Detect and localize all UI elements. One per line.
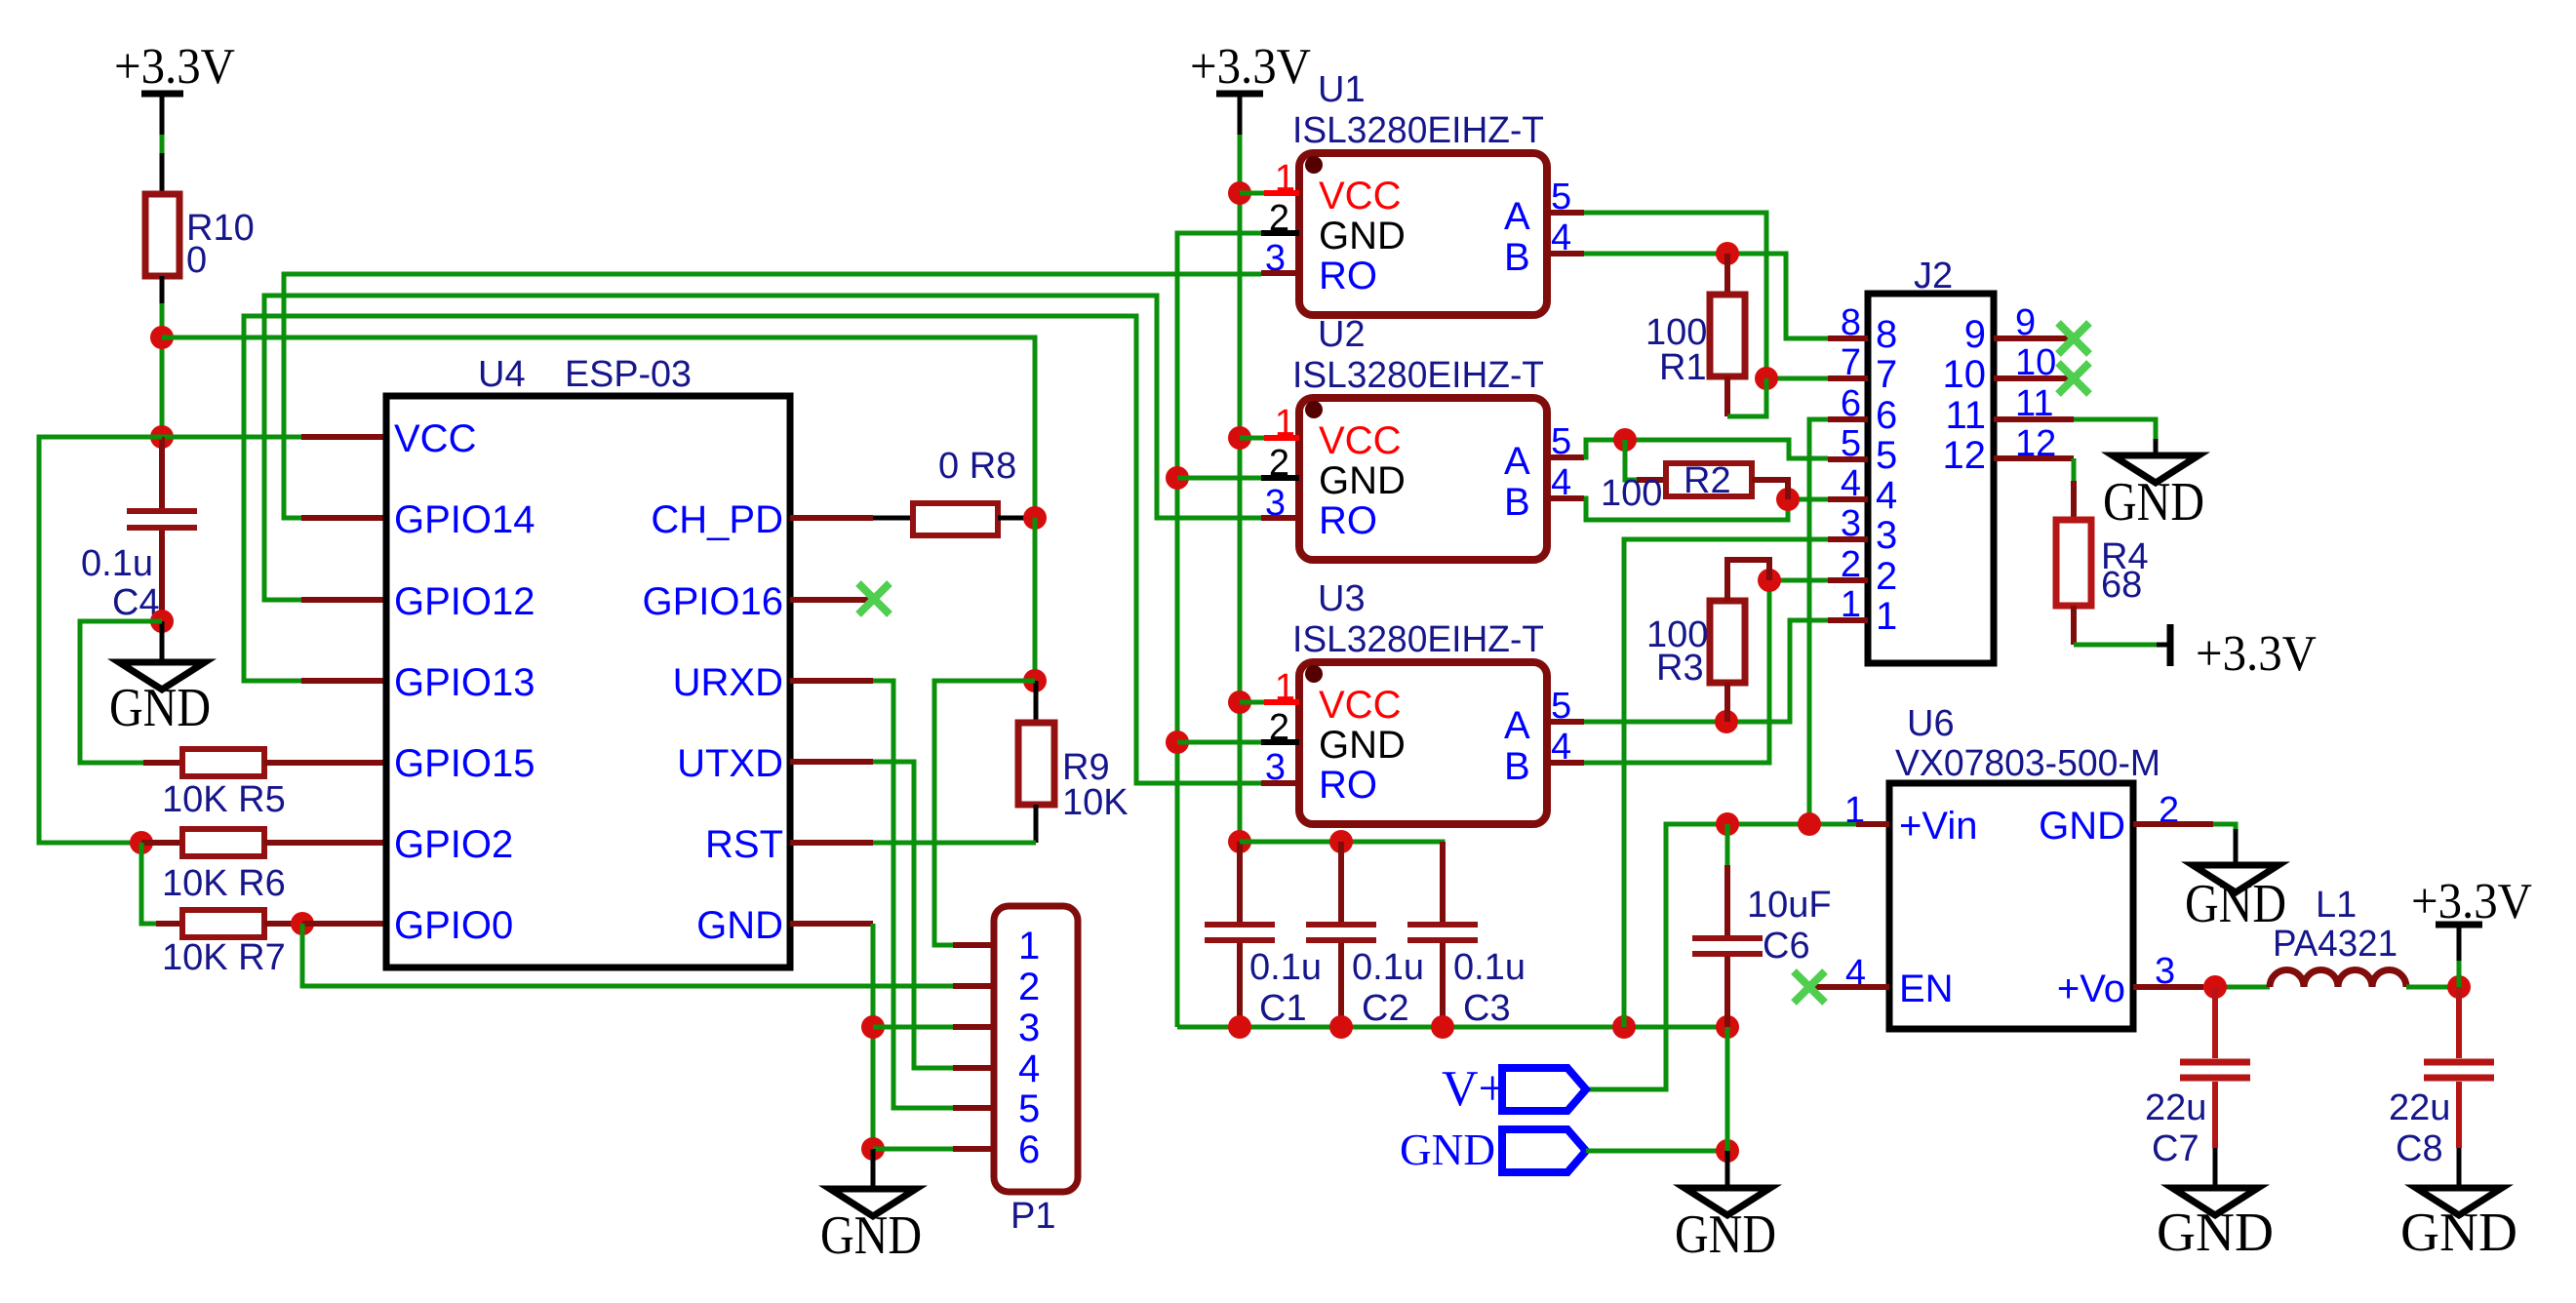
pin U1 A stub	[1547, 210, 1584, 216]
pin J2-2 stub	[1828, 577, 1868, 583]
pin U3 GND stub	[1261, 739, 1299, 745]
pin U3 B stub	[1547, 760, 1584, 766]
resistor R3	[1646, 560, 1769, 722]
svg-text:6: 6	[1876, 394, 1897, 437]
wire J2 pin3 to GND rail	[1624, 539, 1828, 1027]
svg-text:RO: RO	[1319, 499, 1377, 542]
svg-text:+3.3V: +3.3V	[114, 39, 235, 95]
node J2 pin6 riser junction	[1798, 812, 1821, 836]
svg-text:0.1u: 0.1u	[1249, 947, 1322, 988]
svg-text:C7: C7	[2152, 1128, 2200, 1169]
wire U1 B to J2 pin8	[1584, 254, 1828, 338]
svg-text:2: 2	[1876, 555, 1897, 598]
pin U4 UTXD stub	[790, 759, 873, 765]
svg-text:GND: GND	[1319, 215, 1406, 257]
svg-text:10K: 10K	[1062, 782, 1129, 823]
flag GND	[1400, 1125, 1586, 1174]
svg-text:+Vin: +Vin	[1899, 805, 1977, 848]
capacitor C1	[1205, 842, 1322, 1029]
wire GPIO12 to U2 RO (net bus line B)	[264, 296, 1261, 600]
wire GND to U3 pin2	[1177, 740, 1261, 745]
node U4 VCC junction	[150, 425, 174, 449]
pin J2-3 stub	[1828, 536, 1868, 542]
pin J2-8 stub	[1828, 336, 1868, 341]
resistor R6	[141, 829, 301, 904]
svg-text:GPIO16: GPIO16	[642, 580, 783, 623]
svg-text:4: 4	[1876, 474, 1897, 517]
svg-text:V+: V+	[1442, 1061, 1507, 1117]
wire VCC chain down to C1	[1238, 135, 1243, 842]
node C2 top junction	[1329, 830, 1353, 853]
svg-text:B: B	[1504, 236, 1530, 279]
ground (J2 pin11)	[2103, 439, 2204, 533]
pin U1 VCC stub	[1240, 191, 1299, 196]
svg-text:J2: J2	[1914, 256, 1953, 296]
node A1/R1 junction	[1755, 367, 1778, 390]
svg-text:3: 3	[1876, 514, 1897, 557]
pin U2 A stub	[1547, 454, 1584, 460]
wire caps top rail	[1240, 842, 1443, 914]
ic U3 ISL3280EIHZ-T	[1265, 578, 1571, 824]
svg-text:GPIO15: GPIO15	[394, 742, 535, 785]
pin U6 GND stub	[2133, 821, 2213, 827]
pin P1-4 stub	[953, 1065, 994, 1071]
node GPIO0 junction	[291, 912, 314, 935]
svg-text:1: 1	[1018, 925, 1040, 967]
svg-text:U2: U2	[1318, 314, 1366, 355]
ic U2 ISL3280EIHZ-T	[1265, 314, 1571, 560]
node P1 pin3 junction	[861, 1015, 885, 1039]
svg-text:4: 4	[1018, 1047, 1040, 1090]
wire J2 pin11 to GND	[2074, 419, 2156, 439]
node U2 GND junction	[1166, 466, 1189, 490]
svg-text:A: A	[1504, 440, 1530, 483]
wire VCC to U4	[162, 435, 301, 440]
svg-text:U1: U1	[1318, 69, 1366, 110]
node C7 junction	[2203, 975, 2227, 999]
wire GND to P1 pin3	[873, 1025, 953, 1030]
svg-text:B: B	[1504, 745, 1530, 788]
svg-text:VCC: VCC	[1319, 175, 1401, 217]
wire L1 to C8 node	[2406, 985, 2459, 990]
pin U4 GPIO2 stub	[301, 840, 386, 846]
wire V+ to U6 +Vin	[1586, 824, 1856, 1089]
svg-text:C6: C6	[1763, 926, 1810, 967]
svg-text:3: 3	[1018, 1007, 1040, 1049]
svg-text:B: B	[1504, 481, 1530, 524]
svg-text:5: 5	[1876, 434, 1897, 477]
wire GND to R5	[80, 621, 162, 763]
connector J2	[1841, 256, 2056, 663]
svg-text:VX07803-500-M: VX07803-500-M	[1895, 743, 2160, 784]
node GND flag junction	[1716, 1139, 1739, 1163]
svg-text:GND: GND	[109, 678, 211, 738]
ground (U6 pin2)	[2185, 829, 2286, 934]
wire R8 node down to URXD node	[1033, 518, 1038, 681]
wire +3.3V bus line D to R8 node	[162, 337, 1035, 518]
wire U2 A to J2 pin5	[1584, 440, 1828, 458]
svg-text:0: 0	[186, 240, 207, 281]
svg-text:GND: GND	[2400, 1203, 2517, 1263]
svg-text:ESP-03: ESP-03	[565, 354, 692, 395]
ic U6 VX07803-500-M	[1844, 703, 2179, 1029]
resistor R5	[143, 749, 301, 820]
svg-text:0.1u: 0.1u	[81, 543, 153, 584]
svg-text:11: 11	[1945, 394, 1986, 437]
pin U4 CH_PD stub	[790, 515, 873, 521]
wire +3.3V to R10	[160, 135, 165, 153]
wire +Vo to L1	[2203, 985, 2270, 990]
node C1 bottom junction	[1228, 1015, 1251, 1039]
wire U3 B to J2 pin2	[1584, 580, 1828, 763]
svg-text:6: 6	[1018, 1128, 1040, 1171]
pin J2-9 stub	[1994, 336, 2074, 341]
svg-text:+3.3V: +3.3V	[2411, 874, 2532, 929]
pin P1-1 stub	[953, 942, 994, 948]
node C3 bottom junction	[1431, 1015, 1454, 1039]
node C6 bottom junction	[1716, 1015, 1739, 1039]
svg-text:GND: GND	[1675, 1204, 1776, 1265]
pin U4 GPIO0 stub	[302, 921, 386, 927]
node C4 bottom junction	[150, 610, 174, 633]
resistor R10	[145, 153, 255, 303]
wire RST to R9	[873, 841, 1036, 846]
svg-text:U4: U4	[478, 354, 526, 395]
pin U2 VCC stub	[1240, 436, 1299, 441]
power +3.3V (below J2)	[2157, 624, 2317, 682]
pin J2-4 stub	[1828, 496, 1868, 502]
svg-text:+3.3V: +3.3V	[1190, 39, 1311, 95]
wire +3.3V node to P1 pin1	[934, 681, 1035, 945]
pin U1 GND stub	[1261, 230, 1299, 236]
node R6 left junction	[130, 831, 153, 854]
pin U4 VCC stub	[301, 434, 386, 440]
svg-text:GND: GND	[1400, 1125, 1495, 1174]
svg-text:ISL3280EIHZ-T: ISL3280EIHZ-T	[1292, 355, 1544, 396]
node U3 GND junction	[1166, 730, 1189, 754]
svg-text:A: A	[1504, 704, 1530, 747]
pin P1-2 stub	[953, 983, 994, 989]
svg-text:9: 9	[1964, 313, 1986, 356]
node U3 VCC junction	[1228, 691, 1251, 714]
wire VCC left rail to R6	[39, 437, 162, 843]
svg-text:22u: 22u	[2389, 1087, 2450, 1128]
ground (under C8)	[2400, 1148, 2517, 1263]
wire UTXD to P1 pin4	[873, 762, 953, 1068]
svg-text:C8: C8	[2396, 1128, 2443, 1169]
svg-text:8: 8	[1876, 313, 1897, 356]
resistor R2	[1601, 440, 1788, 514]
no-connect X on J2 pin9	[2058, 323, 2089, 354]
pin U2 GND stub	[1261, 475, 1299, 481]
svg-text:R1: R1	[1659, 347, 1707, 388]
wire U3 A to J2 pin1	[1584, 620, 1828, 722]
svg-text:GND: GND	[1319, 459, 1406, 502]
flag V+	[1442, 1061, 1586, 1117]
svg-text:0.1u: 0.1u	[1352, 947, 1424, 988]
svg-text:12: 12	[1943, 434, 1987, 477]
resistor R8	[873, 446, 1035, 535]
svg-text:R2: R2	[1684, 460, 1731, 501]
resistor R4	[2056, 481, 2149, 645]
svg-text:GND: GND	[1319, 724, 1406, 767]
no-connect X on GPIO16	[858, 583, 890, 614]
node B1/R1 junction	[1716, 242, 1739, 265]
ground (under C7)	[2157, 1148, 2274, 1263]
wire R6 node down to R7	[141, 843, 156, 924]
svg-text:RST: RST	[705, 823, 783, 866]
pin P1-5 stub	[953, 1105, 994, 1111]
svg-text:VCC: VCC	[1319, 684, 1401, 727]
svg-text:10K R6: 10K R6	[162, 863, 286, 904]
svg-text:R3: R3	[1656, 648, 1704, 689]
svg-text:22u: 22u	[2145, 1087, 2206, 1128]
wire U4 GND down to P1 pins 3/6	[871, 924, 876, 1149]
svg-text:VCC: VCC	[1319, 419, 1401, 462]
capacitor C8	[2389, 987, 2494, 1169]
ic U4 ESP-03	[386, 354, 790, 967]
svg-text:U3: U3	[1318, 578, 1366, 619]
ground (under P1)	[820, 1149, 922, 1266]
node P1 pin6 junction	[861, 1137, 885, 1161]
svg-text:GPIO12: GPIO12	[394, 580, 535, 623]
node U1 VCC junction	[1228, 181, 1251, 205]
pin U3 A stub	[1547, 719, 1584, 725]
wire GND to P1 pin6	[873, 1147, 953, 1152]
svg-text:GND: GND	[2157, 1203, 2274, 1263]
wire U2 B to J2 pin4	[1584, 498, 1828, 520]
svg-text:GPIO0: GPIO0	[394, 904, 513, 947]
svg-text:GPIO2: GPIO2	[394, 823, 513, 866]
capacitor C7	[2145, 987, 2250, 1169]
wire J2 pin12 to R4	[2072, 458, 2077, 481]
svg-text:GND: GND	[2039, 805, 2125, 848]
pin J2-7 stub	[1828, 375, 1868, 381]
node C6 top junction	[1716, 812, 1739, 836]
pin U4 GPIO16 stub	[790, 597, 873, 603]
resistor R9	[1018, 681, 1129, 843]
svg-text:URXD: URXD	[673, 661, 783, 704]
node U2 VCC junction	[1228, 426, 1251, 450]
svg-text:A: A	[1504, 195, 1530, 238]
pin U6 +Vo stub	[2133, 984, 2203, 990]
pin U4 RST stub	[790, 840, 873, 846]
node B2/R2 junction	[1776, 488, 1800, 511]
power +3.3V (above C8)	[2411, 874, 2532, 987]
node A3/R3 junction	[1715, 710, 1738, 733]
pin U1 RO stub	[1261, 270, 1299, 276]
svg-text:10uF: 10uF	[1747, 885, 1832, 926]
wire R10 to VCC node	[160, 303, 165, 437]
wire GND bottom rail	[1177, 1025, 1727, 1030]
ground (under C4)	[109, 621, 211, 738]
pin U4 GND stub	[790, 921, 873, 927]
svg-text:C1: C1	[1259, 988, 1307, 1029]
svg-text:RO: RO	[1319, 764, 1377, 807]
pin J2-5 stub	[1828, 456, 1868, 462]
svg-text:10: 10	[1943, 353, 1987, 396]
svg-text:ISL3280EIHZ-T: ISL3280EIHZ-T	[1292, 619, 1544, 660]
svg-text:100: 100	[1601, 473, 1662, 514]
node B3/R3 junction	[1758, 569, 1781, 592]
power +3.3V (top left)	[114, 39, 235, 135]
capacitor C3	[1407, 842, 1526, 1029]
pin J2-10 stub	[1994, 375, 2074, 381]
svg-text:C2: C2	[1362, 988, 1409, 1029]
wire GPIO0 to P1 pin2	[302, 924, 953, 986]
svg-text:10K R5: 10K R5	[162, 779, 286, 820]
svg-text:PA4321: PA4321	[2273, 924, 2398, 965]
pin J2-1 stub	[1828, 617, 1868, 623]
wire C6 bottom to GND flag node	[1725, 1027, 1730, 1151]
pin U1 B stub	[1547, 251, 1584, 257]
svg-text:GND: GND	[696, 904, 783, 947]
resistor R1	[1645, 254, 1745, 416]
inductor L1 PA4321	[2270, 885, 2406, 987]
svg-text:C3: C3	[1463, 988, 1511, 1029]
wire R4 to +3.3V	[2074, 643, 2157, 648]
pin U6 EN stub	[1809, 984, 1889, 990]
svg-text:+Vo: +Vo	[2057, 967, 2125, 1010]
svg-text:+3.3V: +3.3V	[2196, 626, 2317, 682]
resistor R7	[156, 910, 302, 978]
ground (below C6)	[1675, 1151, 1776, 1265]
pin U4 GPIO12 stub	[301, 597, 386, 603]
capacitor C4	[81, 437, 197, 623]
wire U6 GND to ground	[2213, 824, 2236, 829]
pin J2-11 stub	[1994, 416, 2074, 422]
svg-text:5: 5	[1018, 1087, 1040, 1130]
no-connect X on J2 pin10	[2058, 363, 2089, 394]
wire U1 A to J2 pin7	[1584, 213, 1828, 378]
wire GPIO14 to U1 RO (net bus line A)	[284, 274, 1261, 518]
svg-text:0.1u: 0.1u	[1453, 947, 1526, 988]
wire GND to U2 pin2	[1177, 476, 1261, 481]
pin U2 RO stub	[1261, 515, 1299, 521]
svg-text:VCC: VCC	[394, 417, 476, 460]
wire J2 pin6 to +Vin	[1809, 419, 1828, 824]
svg-text:P1: P1	[1011, 1196, 1055, 1237]
node C1 top junction	[1228, 830, 1251, 853]
svg-text:U6: U6	[1907, 703, 1955, 744]
node +3.3V bus junction	[150, 326, 174, 349]
pin U3 VCC stub	[1240, 700, 1299, 705]
ic U1 ISL3280EIHZ-T	[1265, 69, 1571, 315]
node URXD/R9 junction	[1023, 669, 1047, 692]
capacitor C2	[1306, 842, 1424, 1029]
no-connect X on EN	[1794, 971, 1825, 1003]
svg-text:0 R8: 0 R8	[938, 446, 1016, 487]
svg-text:GND: GND	[2103, 472, 2204, 533]
svg-text:7: 7	[1876, 353, 1897, 396]
power +3.3V (above U1)	[1190, 39, 1311, 135]
pin J2-6 stub	[1828, 416, 1868, 422]
wire GND chain (U1..U3 to rail)	[1177, 233, 1261, 1027]
svg-text:ISL3280EIHZ-T: ISL3280EIHZ-T	[1292, 110, 1544, 151]
wire URXD to P1 pin5	[873, 681, 953, 1108]
pin U4 GPIO14 stub	[301, 515, 386, 521]
wire R1 bottom loop to A1 node	[1727, 378, 1766, 416]
node J2 pin3 rail junction	[1612, 1015, 1636, 1039]
svg-text:CH_PD: CH_PD	[651, 498, 783, 541]
pin J2-12 stub	[1994, 455, 2074, 461]
svg-text:GPIO14: GPIO14	[394, 498, 535, 541]
node A2/R2 junction	[1613, 428, 1637, 452]
svg-text:10K R7: 10K R7	[162, 937, 286, 978]
pin U3 RO stub	[1261, 780, 1299, 786]
svg-text:RO: RO	[1319, 255, 1377, 297]
node C8 junction	[2447, 975, 2471, 999]
svg-text:2: 2	[1018, 966, 1040, 1008]
svg-text:GND: GND	[2185, 874, 2286, 934]
pin U6 +Vin stub	[1856, 821, 1889, 827]
capacitor C6	[1692, 824, 1832, 1027]
pin U4 GPIO13 stub	[301, 678, 386, 684]
svg-text:GND: GND	[820, 1205, 922, 1266]
svg-text:EN: EN	[1899, 967, 1954, 1010]
wire GND flag to C6 bottom	[1586, 1149, 1727, 1154]
svg-text:UTXD: UTXD	[677, 742, 783, 785]
pin P1-6 stub	[953, 1146, 994, 1152]
pin U4 GPIO15 stub	[301, 760, 386, 766]
pin U2 B stub	[1547, 495, 1584, 501]
svg-text:68: 68	[2101, 565, 2142, 606]
svg-text:1: 1	[1876, 595, 1897, 638]
node R8 right junction	[1023, 506, 1047, 530]
wire GPIO13 to U3 RO (net bus line C)	[244, 316, 1261, 783]
pin U4 URXD stub	[790, 678, 873, 684]
svg-text:L1: L1	[2316, 885, 2357, 926]
svg-text:GPIO13: GPIO13	[394, 661, 535, 704]
connector P1	[994, 906, 1078, 1237]
pin P1-3 stub	[953, 1024, 994, 1030]
node C2 bottom junction	[1329, 1015, 1353, 1039]
